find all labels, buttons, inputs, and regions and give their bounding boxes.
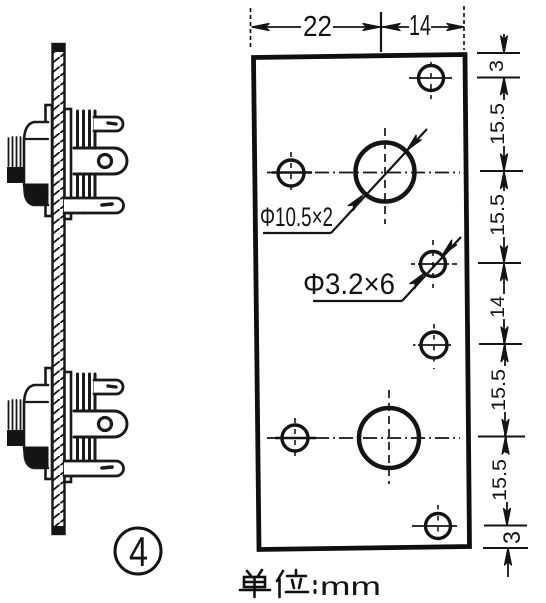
svg-text:15.5: 15.5 bbox=[490, 459, 511, 501]
jack socket 1 bbox=[7, 105, 127, 219]
svg-text:15.5: 15.5 bbox=[489, 369, 510, 411]
panel outline bbox=[254, 55, 470, 550]
leader PHI 10.5 x 2 bbox=[263, 129, 427, 233]
dan bbox=[247, 571, 251, 576]
svg-text:3: 3 bbox=[499, 531, 526, 544]
svg-text:15.5: 15.5 bbox=[488, 194, 509, 236]
svg-text:3: 3 bbox=[487, 60, 508, 72]
jack socket 2 bbox=[7, 368, 127, 482]
svg-text:15.5: 15.5 bbox=[488, 103, 509, 145]
panel strip (hatched) bbox=[52, 44, 65, 534]
svg-text:4: 4 bbox=[129, 528, 148, 575]
chain arrows bbox=[501, 36, 508, 53]
wei bbox=[277, 571, 283, 581]
ticks bbox=[477, 52, 520, 54]
svg-text:Φ3.2×6: Φ3.2×6 bbox=[303, 268, 395, 301]
holes bbox=[278, 66, 451, 539]
chain labels (rotated) bbox=[487, 60, 526, 544]
svg-text:14: 14 bbox=[488, 296, 509, 318]
svg-text:14: 14 bbox=[409, 10, 431, 42]
leader PHI 3.2 x 6 bbox=[313, 237, 461, 301]
svg-text:mm: mm bbox=[320, 571, 381, 601]
svg-text:22: 22 bbox=[303, 11, 332, 43]
svg-text:Φ10.5×2: Φ10.5×2 bbox=[260, 202, 333, 232]
centerlines bbox=[267, 62, 460, 536]
colon bbox=[314, 582, 317, 584]
dim line segments bbox=[503, 34, 505, 53]
